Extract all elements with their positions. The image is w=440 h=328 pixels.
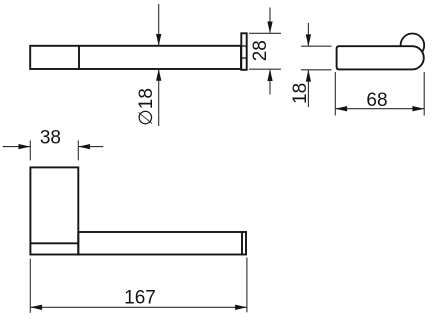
svg-text:18: 18 bbox=[290, 83, 311, 104]
svg-text:∅18: ∅18 bbox=[136, 88, 157, 126]
svg-text:38: 38 bbox=[40, 127, 61, 148]
svg-text:68: 68 bbox=[366, 90, 387, 111]
svg-text:167: 167 bbox=[124, 287, 156, 308]
svg-text:28: 28 bbox=[250, 40, 271, 61]
